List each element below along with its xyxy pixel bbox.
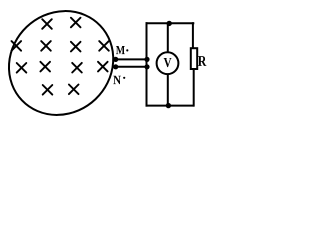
flux cross row4 a [43, 85, 53, 95]
label dot after N [123, 77, 125, 79]
flux cross row1 a [42, 19, 52, 29]
flux cross row3 a [17, 63, 27, 73]
voltmeter label V [164, 58, 172, 67]
wire resistor bottom lead [193, 69, 195, 107]
junction dot bottom rail [166, 103, 171, 108]
resistor label R [198, 56, 206, 66]
label M [116, 46, 125, 54]
label N [113, 76, 121, 84]
junction dot N-bus [144, 64, 149, 69]
node N (terminal dot on ellipse) [113, 64, 118, 69]
flux cross row2 a [12, 41, 22, 51]
junction dot M-bus [144, 57, 149, 62]
wire left vertical bus [146, 22, 148, 106]
wire N to left bus [113, 66, 147, 68]
wire M to left bus [113, 58, 147, 60]
flux cross row2 b [41, 41, 51, 51]
flux cross row3 b [40, 62, 50, 72]
flux cross row3 d [98, 62, 108, 72]
wire top rail [146, 22, 195, 24]
flux cross row1 b [71, 18, 81, 28]
voltmeter body [157, 52, 179, 74]
wire bottom rail [146, 105, 195, 107]
node M (terminal dot on ellipse) [113, 57, 118, 62]
resistor R body [191, 48, 197, 69]
flux cross row3 c [72, 63, 82, 73]
wire voltmeter top lead [167, 23, 169, 53]
junction dot top rail [167, 21, 172, 26]
flux cross row2 c [71, 42, 81, 52]
wire voltmeter bottom lead [167, 74, 169, 106]
wire resistor top lead [192, 22, 194, 49]
flux cross row2 d [99, 41, 109, 51]
field region boundary (ellipse) [0, 0, 135, 136]
label dot after M [126, 49, 128, 51]
flux cross row4 b [69, 85, 79, 95]
